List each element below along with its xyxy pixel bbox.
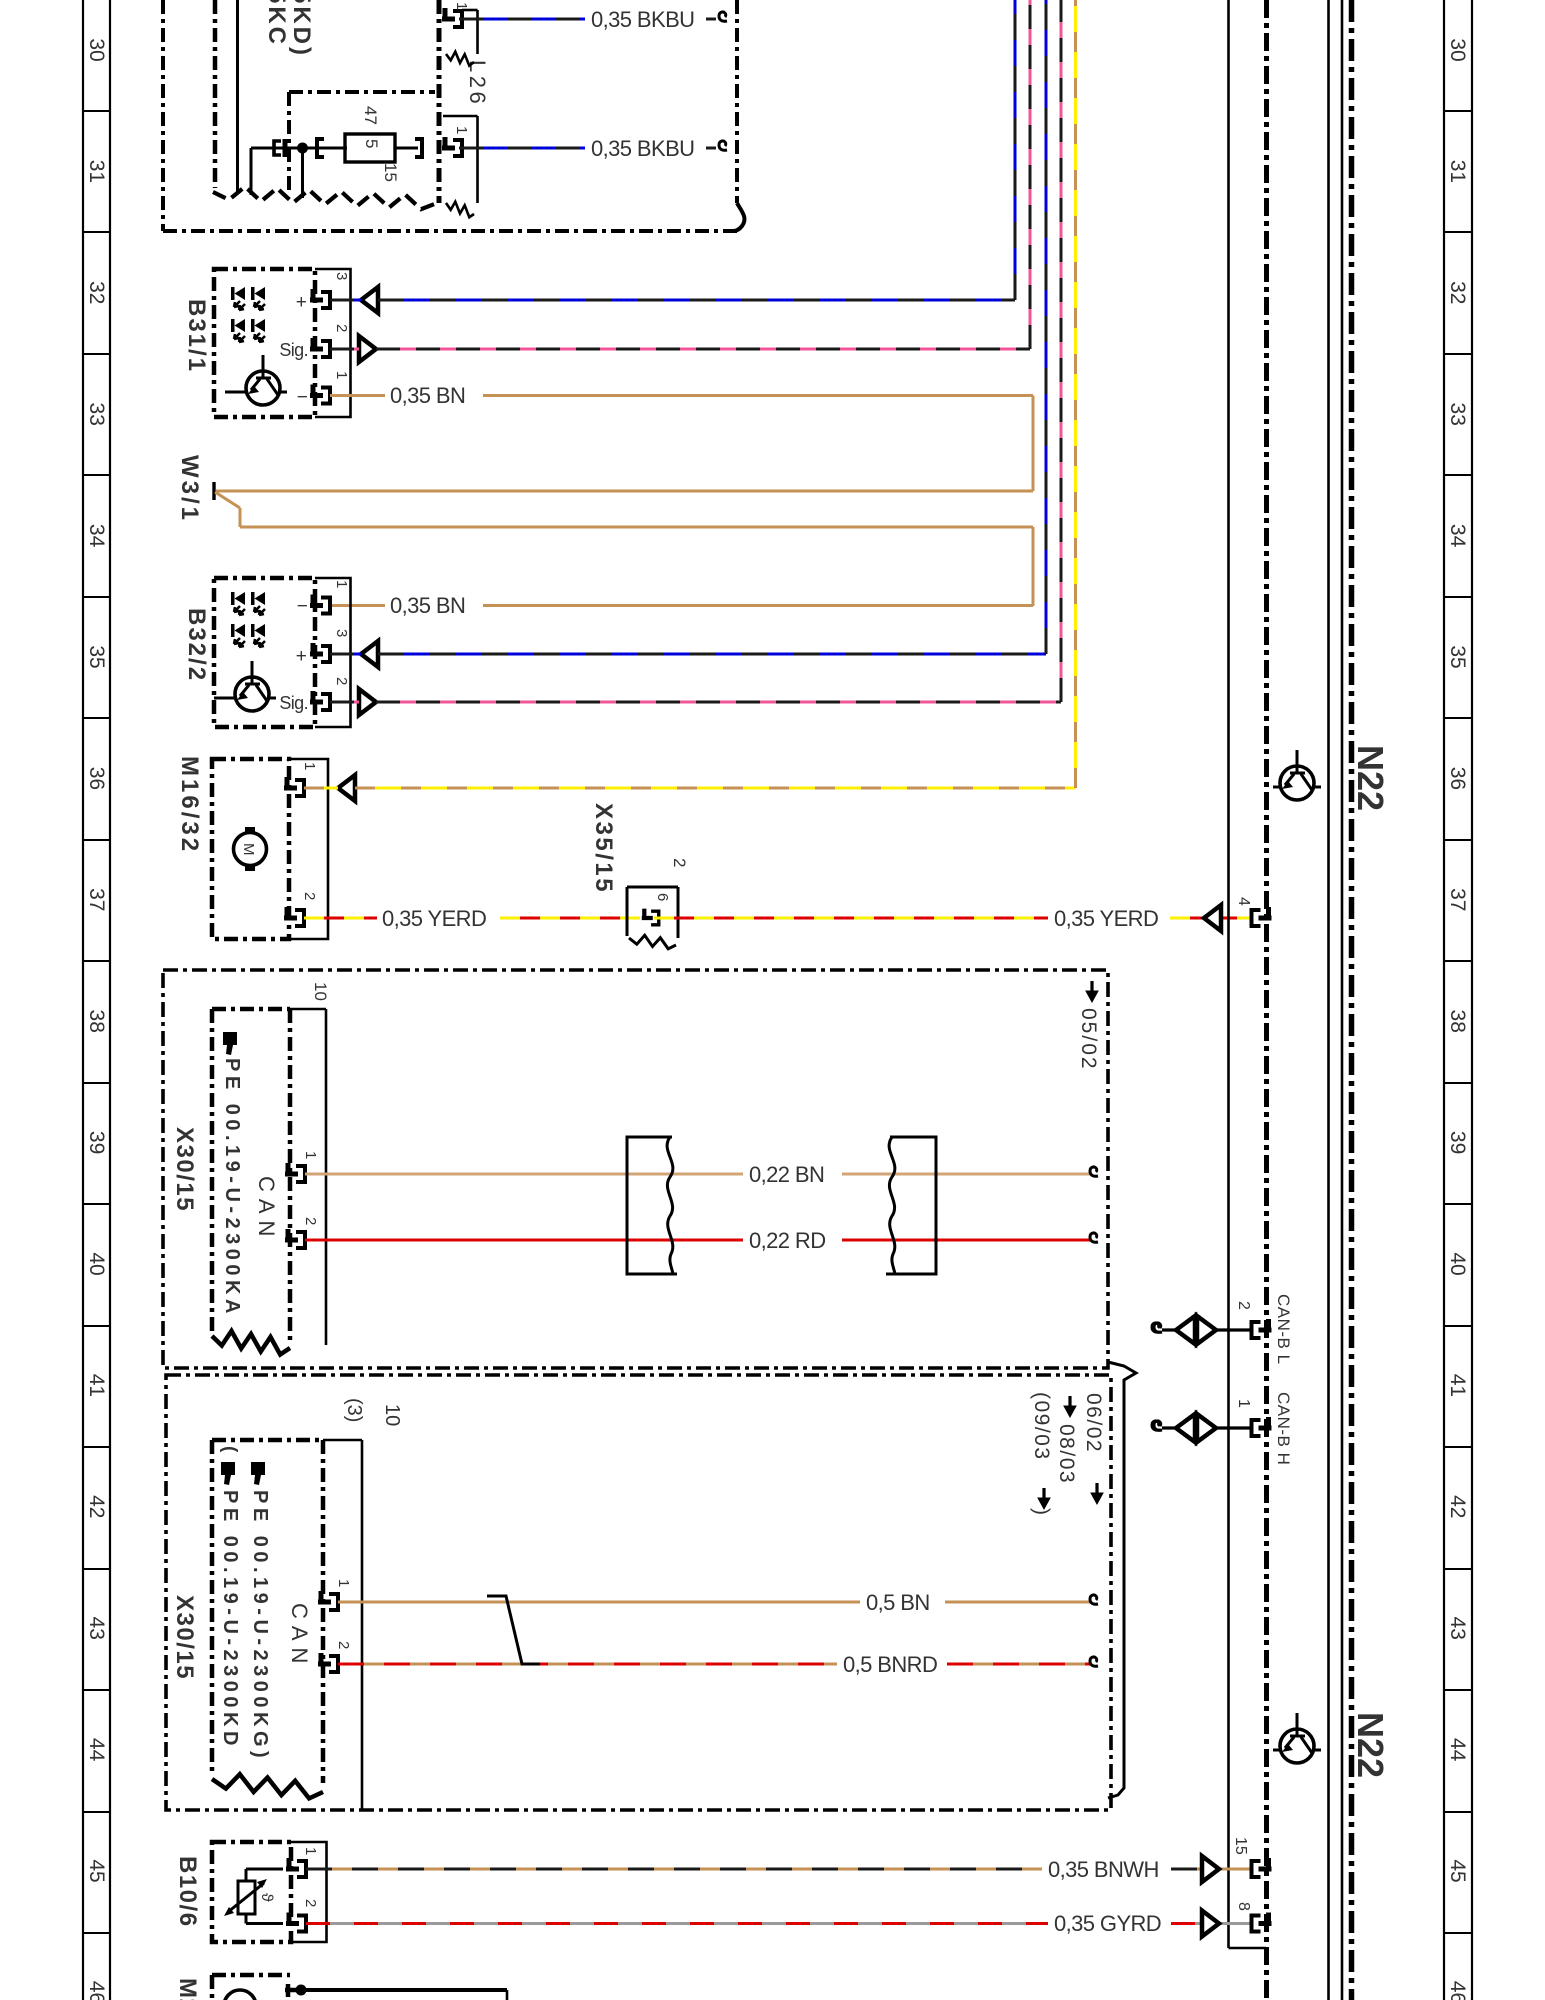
svg-text:32: 32 bbox=[1446, 281, 1469, 304]
svg-text:33: 33 bbox=[1446, 403, 1469, 426]
L26 bar tear top bbox=[446, 52, 474, 66]
wire B31/1 - 0,35 BN bbox=[216, 396, 1033, 492]
arrow to N22 pin 4 bbox=[1204, 905, 1221, 931]
crossover symbol bbox=[487, 1596, 540, 1664]
N22 inner rail bbox=[1329, 0, 1343, 2000]
svg-text:5KC: 5KC bbox=[263, 0, 290, 47]
svg-text:6: 6 bbox=[654, 893, 671, 901]
pin 2 bbox=[318, 1653, 338, 1672]
twisted pair symbol L bbox=[1176, 1316, 1216, 1344]
svg-text:2: 2 bbox=[1235, 1301, 1252, 1310]
motor circle (cut) bbox=[224, 1990, 256, 2000]
svg-text:B31/1: B31/1 bbox=[183, 299, 210, 373]
junction dot bbox=[297, 143, 308, 154]
svg-text:2: 2 bbox=[302, 1899, 319, 1907]
svg-text:0,5 BNRD: 0,5 BNRD bbox=[843, 1652, 937, 1677]
sensor B10/6 box bbox=[212, 1842, 291, 1942]
svg-text:37: 37 bbox=[85, 888, 108, 911]
wire 0,35 BNWH bbox=[306, 1868, 1253, 1871]
svg-text:0,22 BN: 0,22 BN bbox=[749, 1162, 824, 1187]
svg-text:CAN-B L: CAN-B L bbox=[1274, 1294, 1293, 1365]
svg-text:39: 39 bbox=[85, 1131, 108, 1154]
svg-text:5KD): 5KD) bbox=[288, 0, 315, 58]
svg-text:M: M bbox=[240, 843, 257, 856]
L26 bar tear bottom bbox=[446, 202, 474, 218]
hand symbol bbox=[223, 1032, 237, 1055]
arrow on pin1 wire bbox=[338, 775, 355, 801]
svg-text:10: 10 bbox=[311, 982, 330, 1001]
svg-text:(09/03: (09/03 bbox=[1030, 1392, 1053, 1461]
svg-text:1: 1 bbox=[1235, 1399, 1252, 1408]
X30/15 KA connector bar bbox=[290, 1009, 326, 1345]
pin 2 bbox=[310, 338, 330, 357]
svg-text:15: 15 bbox=[1232, 1837, 1249, 1855]
svg-text:B32/2: B32/2 bbox=[183, 608, 210, 682]
svg-text:−: − bbox=[297, 596, 308, 617]
svg-text:2: 2 bbox=[333, 677, 350, 685]
M1 pin bbox=[285, 1984, 298, 1997]
internal wires bbox=[246, 1869, 283, 1924]
continuation curl row 1 bbox=[719, 12, 727, 21]
label ( PE 00.19-U-2300KD bbox=[219, 1446, 241, 1750]
svg-text:15: 15 bbox=[381, 163, 400, 182]
photo sensor symbol bbox=[225, 355, 287, 405]
wire 0,35 YERD right bbox=[654, 917, 1253, 920]
pin 1 bbox=[310, 385, 330, 404]
wire 0,5 BNRD bbox=[338, 1663, 1091, 1666]
curl end 0,5 BNRD bbox=[1090, 1657, 1098, 1666]
svg-text:1: 1 bbox=[333, 580, 350, 588]
continuation curl row 2 bbox=[719, 141, 727, 150]
junction dot bbox=[296, 1985, 307, 1996]
svg-text:08/03: 08/03 bbox=[1055, 1424, 1078, 1484]
svg-text:46: 46 bbox=[1446, 1981, 1469, 2000]
sensor B31/1 box bbox=[214, 269, 315, 417]
pin 2 bbox=[310, 691, 330, 710]
resistor 5 bbox=[324, 134, 418, 162]
svg-text:): ) bbox=[1030, 1508, 1053, 1515]
svg-text:0,35 GYRD: 0,35 GYRD bbox=[1054, 1911, 1161, 1936]
svg-text:8: 8 bbox=[1235, 1902, 1252, 1911]
svg-text:34: 34 bbox=[1446, 524, 1469, 548]
svg-text:W3/1: W3/1 bbox=[176, 455, 203, 523]
curl right of box2 bbox=[1152, 1421, 1160, 1430]
X35/15 pin 6 bbox=[642, 909, 659, 925]
pin 2 bbox=[285, 1229, 305, 1248]
svg-text:36: 36 bbox=[85, 767, 108, 790]
curl right of box1 bbox=[1152, 1323, 1160, 1332]
cable duct box 06/02 bbox=[166, 1375, 1111, 1810]
svg-text:ϑ: ϑ bbox=[258, 1893, 275, 1902]
svg-text:N22: N22 bbox=[1350, 1712, 1391, 1778]
M1 connector bar top bbox=[301, 1990, 507, 2000]
svg-text:35: 35 bbox=[1446, 645, 1469, 668]
svg-text:34: 34 bbox=[85, 524, 108, 548]
date label 05/02 bbox=[1077, 981, 1100, 1071]
svg-text:42: 42 bbox=[85, 1495, 108, 1518]
L26 pin 1 (second row) bbox=[442, 137, 462, 156]
wire M16/32 pin2 0,35 YERD left bbox=[304, 917, 640, 920]
N22 internal sensor (lower) bbox=[1273, 1713, 1321, 1763]
sensor B32/2 box bbox=[214, 578, 315, 727]
arrow on Sig wire bbox=[359, 336, 376, 362]
svg-text:M16/32: M16/32 bbox=[176, 756, 203, 854]
cable duct box 05/02 bbox=[163, 970, 1108, 1368]
svg-text:40: 40 bbox=[1446, 1252, 1469, 1275]
svg-text:1: 1 bbox=[302, 1847, 319, 1855]
L26 connector bar top bbox=[462, 10, 478, 54]
wire 0,22 BN bbox=[305, 1173, 1091, 1176]
svg-text:0,35 YERD: 0,35 YERD bbox=[382, 906, 486, 931]
svg-text:2: 2 bbox=[301, 892, 318, 900]
N22 pin 8 bbox=[1252, 1913, 1272, 1932]
svg-text:0,35 BKBU: 0,35 BKBU bbox=[591, 136, 694, 161]
svg-text:47: 47 bbox=[361, 106, 380, 125]
svg-text:31: 31 bbox=[1446, 160, 1469, 183]
svg-text:42: 42 bbox=[1446, 1495, 1469, 1518]
B32/2 connector bar bbox=[315, 578, 351, 727]
wire CAN-B H bbox=[1162, 1426, 1253, 1429]
inner component box around resistor 5 bbox=[289, 92, 435, 192]
svg-text:CAN-B H: CAN-B H bbox=[1274, 1392, 1293, 1465]
motor M1 box (cut) bbox=[212, 1975, 290, 2000]
svg-text:X30/15: X30/15 bbox=[171, 1127, 198, 1212]
svg-text:0,22 RD: 0,22 RD bbox=[749, 1228, 826, 1253]
svg-text:0,35 BNWH: 0,35 BNWH bbox=[1048, 1857, 1159, 1882]
svg-text:PE 00.19-U-2300KG): PE 00.19-U-2300KG) bbox=[249, 1490, 271, 1762]
svg-text:45: 45 bbox=[85, 1859, 108, 1882]
twisted pair symbol H bbox=[1176, 1414, 1216, 1442]
wire B31/1 + (BKBU) bbox=[330, 0, 1015, 300]
N22 pin 2 bbox=[1252, 1319, 1272, 1338]
svg-text:1: 1 bbox=[335, 1579, 352, 1587]
arrow on Sig wire bbox=[359, 689, 376, 715]
control unit N22 connector bar bbox=[1229, 0, 1267, 1948]
wire branch to resistor 5 bbox=[251, 148, 347, 195]
connector X35/15 bbox=[627, 887, 678, 938]
wire junction branch down bbox=[301, 148, 304, 198]
svg-text:0,35 BN: 0,35 BN bbox=[390, 383, 465, 408]
L26 pin 1 (top row) bbox=[442, 8, 462, 27]
svg-text:−: − bbox=[297, 387, 308, 408]
svg-text:2: 2 bbox=[670, 858, 689, 867]
svg-text:0,5 BN: 0,5 BN bbox=[866, 1590, 930, 1615]
photo sensor symbol bbox=[214, 661, 276, 711]
date label 08/03 bbox=[1064, 1396, 1076, 1417]
svg-text:0,35 BN: 0,35 BN bbox=[390, 593, 465, 618]
curl CAN-B L bbox=[1154, 1323, 1162, 1332]
svg-text:46: 46 bbox=[85, 1981, 108, 2000]
pin bracket left of resistor 5 bbox=[317, 139, 324, 157]
svg-text:1: 1 bbox=[301, 762, 318, 770]
N22 pin 15 bbox=[1252, 1858, 1272, 1877]
pin 1 bbox=[285, 1163, 305, 1182]
X30/15 KD tear bbox=[212, 1774, 323, 1798]
svg-text:38: 38 bbox=[85, 1010, 108, 1033]
svg-text:(: ( bbox=[219, 1446, 240, 1453]
pin bracket right of resistor 5 bbox=[415, 139, 422, 157]
pin 1 bbox=[286, 1858, 306, 1877]
svg-text:43: 43 bbox=[1446, 1617, 1469, 1640]
wire 0,35 BKBU row 1 bbox=[459, 18, 716, 21]
B31/1 connector bar bbox=[315, 269, 351, 417]
pin 2 bbox=[286, 1913, 306, 1932]
svg-text:36: 36 bbox=[1446, 767, 1469, 790]
svg-text:37: 37 bbox=[1446, 888, 1469, 911]
svg-text:38: 38 bbox=[1446, 1010, 1469, 1033]
label PE 00.19-U-2300KG) bbox=[249, 1462, 271, 1762]
X30/15 KA tear bbox=[212, 1331, 290, 1355]
brace between boxes bbox=[1108, 1362, 1136, 1798]
connector X30/15 (KD/KG) box bbox=[212, 1440, 323, 1783]
svg-text:0,35 BKBU: 0,35 BKBU bbox=[591, 7, 694, 32]
svg-text:32: 32 bbox=[85, 281, 108, 304]
B10/6 connector bar bbox=[291, 1842, 327, 1942]
component L26 border bbox=[437, 0, 442, 203]
pin 1 bbox=[318, 1591, 338, 1610]
wire 0,5 BN bbox=[338, 1601, 1091, 1604]
cable break symbol right bbox=[886, 1137, 936, 1274]
M16/32 connector bar bbox=[289, 759, 328, 939]
svg-text:(3): (3) bbox=[343, 1398, 365, 1422]
svg-text:2: 2 bbox=[333, 324, 350, 332]
coordinate ruler strip right bbox=[1444, 0, 1472, 2000]
curl end BN bbox=[1090, 1167, 1098, 1176]
L26 connector bar bottom bbox=[443, 116, 478, 203]
N22 pin 4 bbox=[1252, 907, 1272, 926]
svg-text:35: 35 bbox=[85, 645, 108, 668]
svg-text:X30/15: X30/15 bbox=[171, 1595, 198, 1680]
svg-text:1: 1 bbox=[302, 1151, 319, 1159]
N22 pin 1 bbox=[1252, 1417, 1272, 1436]
photodiode arrows bbox=[231, 287, 265, 342]
wire B32/2 + (BKBU) bbox=[330, 0, 1046, 654]
svg-text:X35/15: X35/15 bbox=[590, 803, 617, 894]
X35/15 tear bbox=[629, 935, 676, 949]
pin 2 bbox=[284, 907, 304, 926]
wire stub inside cluster bbox=[236, 0, 239, 193]
svg-text:10: 10 bbox=[381, 1404, 403, 1426]
svg-text:5: 5 bbox=[362, 139, 381, 148]
wire CAN-B L bbox=[1162, 1328, 1253, 1331]
svg-text:41: 41 bbox=[85, 1374, 108, 1397]
wire W3/1 to B32/2 (BN) bbox=[215, 492, 1033, 606]
inner torn box border bbox=[213, 0, 218, 188]
connector X30/15 (KA) box bbox=[212, 1009, 290, 1340]
svg-text:33: 33 bbox=[85, 403, 108, 426]
coordinate ruler strip left bbox=[83, 0, 110, 2000]
wire B31/1 Sig (BKPK) bbox=[330, 0, 1030, 349]
svg-text:1: 1 bbox=[333, 371, 350, 379]
wire M16/32 pin1 (YE/BN) bbox=[304, 0, 1076, 788]
ground point W3/1 bbox=[212, 482, 215, 500]
svg-text:+: + bbox=[296, 292, 307, 313]
wire 0,35 BKBU row 2 bbox=[459, 147, 716, 150]
svg-text:39: 39 bbox=[1446, 1131, 1469, 1154]
svg-text:43: 43 bbox=[85, 1617, 108, 1640]
svg-text:Sig.: Sig. bbox=[279, 340, 308, 360]
N22 border left bbox=[1264, 0, 1269, 2000]
wire 0,22 RD bbox=[305, 1239, 1091, 1242]
wire 0,35 GYRD bbox=[306, 1922, 1253, 1925]
svg-text:4: 4 bbox=[1235, 897, 1252, 906]
NTC resistor symbol bbox=[224, 1879, 267, 1916]
svg-text:44: 44 bbox=[1446, 1738, 1469, 1762]
X30/15 KD connector bar bbox=[323, 1440, 362, 1810]
svg-text:41: 41 bbox=[1446, 1374, 1469, 1397]
svg-text:B10/6: B10/6 bbox=[174, 1856, 201, 1928]
torn bottom edge of cluster boxes bbox=[213, 187, 437, 210]
curl end 0,5 BN bbox=[1090, 1595, 1098, 1604]
svg-text:05/02: 05/02 bbox=[1077, 1008, 1100, 1071]
svg-text:3: 3 bbox=[333, 272, 350, 280]
svg-text:31: 31 bbox=[85, 160, 108, 183]
pin 1 bbox=[310, 595, 330, 614]
pin 3 bbox=[310, 289, 330, 308]
svg-text:CAN: CAN bbox=[254, 1176, 279, 1243]
photodiode arrows bbox=[231, 592, 265, 647]
motor symbol bbox=[234, 827, 267, 871]
svg-text:PE 00.19-U-2300KD: PE 00.19-U-2300KD bbox=[219, 1490, 241, 1750]
N22 border right bbox=[1349, 0, 1355, 2000]
svg-text:45: 45 bbox=[1446, 1859, 1469, 1882]
svg-text:40: 40 bbox=[85, 1252, 108, 1275]
svg-text:06/02: 06/02 bbox=[1082, 1393, 1105, 1453]
wire B32/2 Sig (BKPK) bbox=[330, 0, 1061, 702]
component box 5KC/5KD (torn, top of page) bbox=[163, 0, 745, 231]
svg-text:1: 1 bbox=[453, 126, 470, 134]
arrow on + wire bbox=[361, 641, 378, 667]
curl end RD bbox=[1090, 1233, 1098, 1242]
svg-text:2: 2 bbox=[335, 1641, 352, 1649]
N22 internal sensor (upper) bbox=[1273, 750, 1321, 800]
pin 3 bbox=[310, 643, 330, 662]
svg-text:30: 30 bbox=[1446, 38, 1469, 61]
svg-text:44: 44 bbox=[85, 1738, 108, 1762]
svg-text:CAN: CAN bbox=[287, 1603, 312, 1670]
svg-text:0,35 YERD: 0,35 YERD bbox=[1054, 906, 1158, 931]
svg-text:3: 3 bbox=[333, 629, 350, 637]
connector pin on inner box edge bbox=[274, 139, 285, 157]
svg-text:2: 2 bbox=[302, 1217, 319, 1225]
arrow to N22 pin 15 bbox=[1202, 1856, 1219, 1882]
curl CAN-B H bbox=[1154, 1421, 1162, 1430]
svg-text:N22: N22 bbox=[1350, 745, 1391, 811]
svg-text:M1: M1 bbox=[174, 1978, 201, 2000]
arrow on + wire bbox=[361, 287, 378, 313]
arrow to N22 pin 8 bbox=[1202, 1911, 1219, 1937]
motor M16/32 box bbox=[212, 759, 289, 939]
svg-text:Sig.: Sig. bbox=[279, 693, 308, 713]
svg-text:+: + bbox=[296, 646, 307, 667]
cable break symbol left bbox=[627, 1137, 677, 1274]
pin 1 bbox=[284, 777, 304, 796]
svg-text:PE 00.19-U-2300KA: PE 00.19-U-2300KA bbox=[221, 1058, 243, 1318]
svg-text:30: 30 bbox=[85, 38, 108, 61]
